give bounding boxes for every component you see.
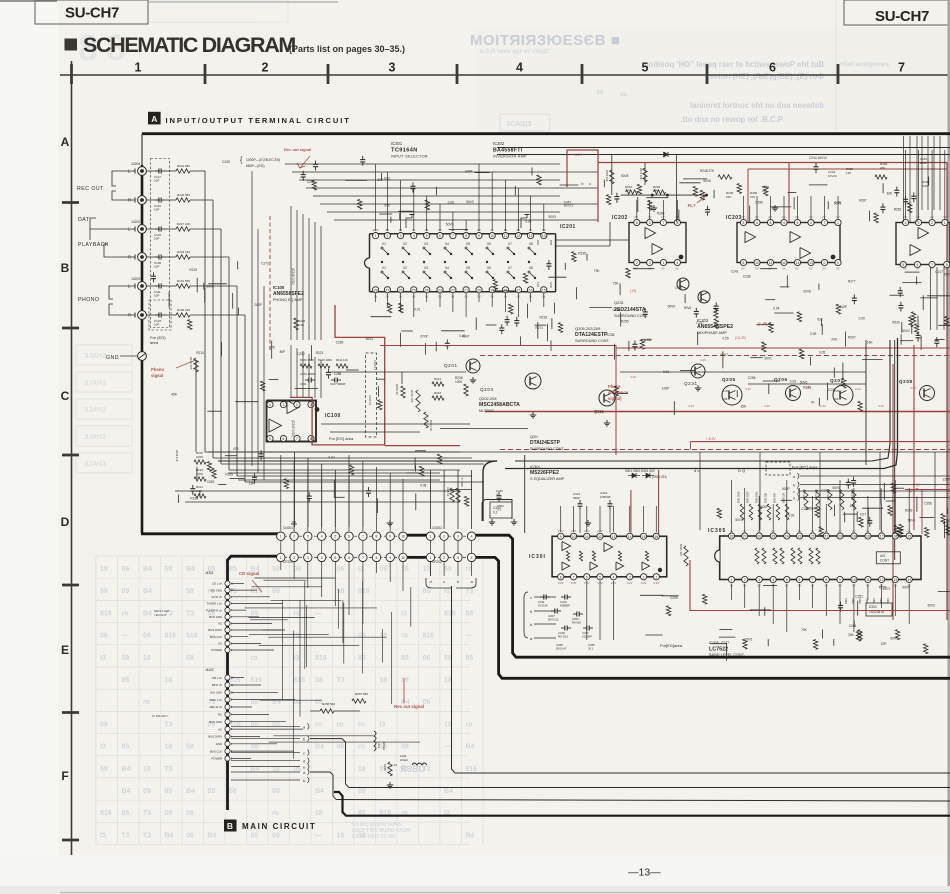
svg-text:09: 09 — [186, 810, 194, 817]
svg-text:D303: D303 — [869, 605, 877, 609]
svg-text:TUNER R ch: TUNER R ch — [206, 608, 223, 612]
svg-text:T3: T3 — [143, 832, 151, 839]
svg-text:11: 11 — [504, 234, 508, 238]
svg-text:0.05: 0.05 — [722, 337, 728, 341]
svg-text:13: 13 — [529, 234, 533, 238]
svg-text:3: 3 — [400, 234, 402, 238]
svg-text:7: 7 — [362, 556, 364, 560]
svg-text:21: 21 — [824, 535, 828, 539]
svg-text:100μH: 100μH — [400, 758, 408, 762]
svg-text:AC: AC — [218, 622, 222, 626]
svg-text:09: 09 — [251, 699, 259, 706]
section label A INPUT/OUTPUT TERMINAL CIRCUIT — [148, 112, 161, 125]
svg-text:R247: R247 — [462, 335, 470, 339]
svg-text:—: — — [466, 633, 473, 640]
svg-text:18: 18 — [444, 677, 452, 684]
bus wire to main amp 2 — [346, 784, 950, 788]
svg-text:16: 16 — [654, 535, 658, 539]
svg-text:3: 3 — [457, 535, 459, 539]
svg-text:620P: 620P — [782, 487, 789, 491]
svg-text:8: 8 — [376, 535, 378, 539]
svg-text:09: 09 — [122, 588, 130, 595]
svg-text:J4302: J4302 — [205, 668, 214, 672]
I/O block bottom border right segment to corner — [475, 535, 950, 657]
svg-text:50V6: 50V6 — [800, 381, 808, 385]
svg-text:0V: 0V — [836, 267, 839, 271]
svg-text:11: 11 — [782, 261, 786, 265]
svg-text:X1: X1 — [382, 242, 386, 246]
svg-text:R365 235K: R365 235K — [757, 491, 759, 503]
svg-text:2.2K: 2.2K — [298, 323, 304, 327]
svg-text:63K: 63K — [817, 318, 824, 322]
IC201 pins bottom — [373, 287, 379, 293]
svg-text:b: b — [457, 580, 459, 584]
clutter left column B-C — [168, 292, 170, 308]
svg-text:LC7522: LC7522 — [709, 647, 728, 653]
svg-text:c: c — [530, 596, 532, 600]
svg-text:0V: 0V — [755, 267, 758, 271]
svg-text:C120 0.1: C120 0.1 — [368, 395, 372, 406]
svg-text:Q201: Q201 — [444, 363, 458, 368]
svg-text:15: 15 — [642, 535, 646, 539]
bus wire to main amp 3 — [336, 800, 950, 802]
svg-text:BUS GND: BUS GND — [209, 720, 222, 724]
IC301 pins bottom — [558, 574, 564, 580]
R251 R253 resistors — [626, 190, 638, 194]
svg-text:SCHEMATIC DIAGRAM: SCHEMATIC DIAGRAM — [83, 33, 295, 57]
clutter around IC100 upper — [328, 369, 330, 373]
svg-text:(CL-R): (CL-R) — [735, 336, 746, 340]
secondary bundle into IC100 — [290, 206, 292, 340]
svg-text:C288: C288 — [334, 372, 342, 376]
svg-text:58: 58 — [186, 588, 194, 595]
vertical drops above IC202 — [611, 155, 613, 195]
R225 2.2K — [294, 318, 298, 330]
svg-text:R267: R267 — [859, 199, 867, 203]
svg-text:C271: C271 — [883, 587, 891, 591]
wire Q201 join — [330, 371, 466, 373]
svg-text:X7: X7 — [508, 242, 512, 246]
svg-text:4: 4 — [772, 578, 774, 582]
svg-text:09: 09 — [143, 633, 151, 640]
svg-text:816: 816 — [423, 633, 435, 640]
svg-text:A: A — [61, 135, 70, 149]
resistor R221 560 — [165, 170, 176, 172]
svg-text:13: 13 — [809, 261, 813, 265]
svg-text:SURROUND CONT.: SURROUND CONT. — [530, 447, 564, 451]
resistor network above IC100 — [300, 364, 312, 368]
wires between IC201 and IC202 — [556, 239, 629, 241]
svg-text:20K: 20K — [831, 338, 838, 342]
svg-text:6: 6 — [916, 263, 918, 267]
svg-text:12K: 12K — [846, 171, 851, 175]
svg-text:b: b — [303, 738, 305, 742]
svg-text:2: 2 — [931, 221, 933, 225]
svg-text:6: 6 — [769, 61, 776, 75]
svg-text:For [EG] area: For [EG] area — [329, 436, 354, 441]
clutter below IC305 — [938, 590, 950, 592]
svg-text:11: 11 — [866, 578, 870, 582]
svg-text:27: 27 — [386, 288, 390, 292]
svg-text:B4: B4 — [315, 744, 324, 751]
svg-text:50V1: 50V1 — [764, 357, 772, 361]
svg-text:X2: X2 — [403, 266, 407, 270]
red wire EG extension — [385, 445, 460, 447]
svg-text:d: d — [793, 497, 795, 501]
svg-text:ЯЗВU: ЯЗВU — [400, 764, 425, 774]
R279 10K vertical — [643, 168, 647, 182]
red dashed feed line — [269, 216, 271, 350]
svg-text:25: 25 — [771, 535, 775, 539]
svg-text:A/S: A/S — [880, 554, 885, 558]
svg-text:SURROUND CONT.: SURROUND CONT. — [575, 339, 609, 343]
svg-text:R218 12K: R218 12K — [177, 250, 190, 254]
svg-text:d: d — [530, 623, 532, 627]
IC201 switch symbols row2 — [382, 272, 388, 278]
svg-text:5: 5 — [599, 575, 601, 579]
svg-text:+6.2V: +6.2V — [573, 153, 583, 157]
svg-text:FL?: FL? — [688, 203, 696, 208]
svg-text:SIG GND: SIG GND — [210, 588, 222, 592]
svg-text:R291 470: R291 470 — [679, 544, 683, 557]
svg-text:17: 17 — [880, 535, 884, 539]
svg-text:R269: R269 — [905, 509, 913, 513]
svg-text:J4202: J4202 — [131, 220, 140, 224]
svg-text:BUS DATA: BUS DATA — [208, 628, 222, 632]
svg-text:50V5: 50V5 — [833, 486, 841, 490]
IC305 internals — [755, 548, 759, 564]
svg-text:R260 12K: R260 12K — [605, 170, 609, 182]
resistor R101 550 — [165, 285, 176, 287]
capacitor C117 — [155, 170, 159, 172]
svg-text:R362: R362 — [858, 598, 861, 604]
wires IC301 below verticals — [586, 581, 588, 640]
svg-text:4.4V: 4.4V — [805, 386, 811, 390]
svg-text:09: 09 — [143, 788, 151, 795]
svg-text:4.4V: 4.4V — [745, 387, 751, 391]
IC203 pins top — [740, 219, 746, 225]
svg-text:B4: B4 — [143, 566, 152, 573]
wires below IC305 — [731, 584, 733, 600]
svg-text:INPUT SELECTOR: INPUT SELECTOR — [391, 155, 428, 159]
svg-text:58: 58 — [100, 766, 108, 773]
svg-text:R101 550: R101 550 — [177, 279, 190, 283]
R209 vertical — [401, 386, 405, 398]
IC202 package — [629, 223, 686, 263]
svg-text:7: 7 — [812, 578, 814, 582]
svg-text:POWER: POWER — [211, 648, 222, 652]
clutter right mid — [911, 312, 915, 322]
ground below C317 — [587, 520, 589, 523]
svg-text:30P: 30P — [377, 178, 383, 182]
svg-text:—: — — [315, 610, 322, 617]
svg-text:R360: R360 — [844, 598, 847, 604]
svg-text:C244 16V10: C244 16V10 — [809, 156, 827, 160]
svg-text:C220: C220 — [222, 160, 230, 164]
svg-text:0.03: 0.03 — [788, 514, 794, 518]
svg-text:b: b — [793, 484, 795, 488]
gnd jack — [138, 352, 147, 361]
svg-text:1: 1 — [837, 221, 839, 225]
R260 12K vertical — [610, 170, 614, 184]
svg-text:45K: 45K — [171, 392, 178, 396]
svg-text:0V: 0V — [809, 267, 812, 271]
svg-text:0.09: 0.09 — [859, 317, 865, 321]
red rail 6.2V mid — [691, 441, 950, 443]
svg-text:20: 20 — [477, 288, 481, 292]
svg-text:3: 3 — [389, 61, 396, 75]
svg-text:10: 10 — [490, 234, 494, 238]
svg-text:0.06: 0.06 — [525, 220, 531, 224]
svg-text:50V4: 50V4 — [366, 337, 374, 341]
long vertical to IC301 — [524, 455, 526, 533]
svg-text:I3: I3 — [444, 588, 450, 595]
svg-text:T3: T3 — [186, 610, 194, 617]
clutter below IC100 — [334, 496, 345, 498]
svg-text:6: 6 — [586, 575, 588, 579]
svg-text:7: 7 — [362, 535, 364, 539]
svg-text:18: 18 — [504, 288, 508, 292]
svg-text:C330: C330 — [493, 506, 501, 510]
svg-text:2: 2 — [293, 556, 295, 560]
svg-text:100K: 100K — [455, 380, 463, 384]
svg-text:816: 816 — [251, 677, 263, 684]
svg-text:R355 220K: R355 220K — [802, 489, 804, 501]
svg-text:85: 85 — [423, 588, 431, 595]
svg-text:ro: ro — [294, 610, 301, 617]
svg-text:4.4V: 4.4V — [855, 387, 861, 391]
svg-text:12: 12 — [517, 234, 521, 238]
svg-text:C232: C232 — [297, 352, 305, 356]
svg-text:6: 6 — [636, 221, 638, 225]
svg-text:R230: R230 — [383, 764, 387, 771]
svg-text:R223: R223 — [316, 351, 324, 355]
svg-text:BA4558FTI: BA4558FTI — [493, 148, 523, 154]
svg-text:09: 09 — [401, 677, 409, 684]
red rail 4.4V — [485, 411, 950, 413]
svg-text:7: 7 — [452, 234, 454, 238]
svg-text:13: 13 — [612, 535, 616, 539]
red dashed rail — [500, 449, 950, 451]
stair bus drops to CN202 — [430, 470, 432, 529]
clutter below IC202 IC203 — [619, 283, 621, 295]
abcd bracket below CN202 — [430, 562, 432, 576]
svg-text:R326 1K: R326 1K — [461, 477, 464, 487]
svg-text:d: d — [303, 760, 305, 764]
svg-text:INPUT/OUTPUT TERMINAL CIRCUIT: INPUT/OUTPUT TERMINAL CIRCUIT — [166, 116, 351, 125]
svg-text:4.4V: 4.4V — [688, 404, 694, 408]
svg-text:816: 816 — [315, 655, 327, 662]
svg-text:18: 18 — [143, 766, 151, 773]
svg-text:55K: 55K — [384, 203, 391, 207]
svg-text:100K: 100K — [196, 455, 203, 459]
svg-text:R217 10K: R217 10K — [177, 222, 190, 226]
svg-text:27K: 27K — [269, 345, 276, 349]
svg-text:34: 34 — [596, 89, 604, 96]
svg-text:AN6558SFE2: AN6558SFE2 — [273, 291, 304, 297]
svg-text:R271: R271 — [535, 326, 543, 330]
svg-text:R248 27K: R248 27K — [700, 169, 715, 173]
svg-text:4: 4 — [905, 221, 907, 225]
svg-text:B4: B4 — [186, 788, 195, 795]
right DIP package — [896, 223, 950, 265]
svg-text:R365: R365 — [879, 598, 882, 604]
svg-text:D Q: D Q — [738, 468, 745, 473]
svg-text:85: 85 — [165, 788, 173, 795]
svg-text:58: 58 — [444, 655, 452, 662]
mid bus lines — [208, 451, 950, 453]
svg-text:85: 85 — [358, 655, 366, 662]
svg-text:C238: C238 — [743, 274, 751, 278]
svg-text:I3: I3 — [401, 610, 407, 617]
wire mesh above IC201 — [285, 163, 560, 165]
svg-text:X3: X3 — [424, 266, 428, 270]
svg-text:100P: 100P — [662, 387, 669, 391]
header box SU-CH7 left — [35, 0, 148, 24]
svg-text:1000P—(E,EB,EC,ES): 1000P—(E,EB,EC,ES) — [246, 158, 280, 162]
svg-text:X1: X1 — [382, 266, 386, 270]
svg-text:16: 16 — [529, 288, 533, 292]
svg-text:10P: 10P — [154, 264, 159, 268]
svg-text:IC305: IC305 — [709, 641, 719, 645]
svg-text:0V: 0V — [675, 267, 678, 271]
svg-text:50V8: 50V8 — [207, 285, 215, 289]
svg-text:B4: B4 — [165, 832, 174, 839]
svg-text:CLK: CLK — [536, 282, 540, 287]
svg-text:10: 10 — [401, 556, 405, 560]
svg-text:39K: 39K — [653, 189, 658, 193]
svg-text:9: 9 — [389, 556, 391, 560]
svg-text:lanimret lortnoc eht no dna: lanimret lortnoc eht no dna neewteb — [690, 101, 824, 110]
svg-text:MIX/PHASE AMP: MIX/PHASE AMP — [697, 331, 727, 335]
svg-text:C264: C264 — [849, 624, 857, 628]
Q208 transistor — [920, 386, 935, 401]
svg-text:в.З.Я тиев едт ит хзедС: в.З.Я тиев едт ит хзедС — [480, 49, 550, 55]
svg-text:ro: ro — [315, 721, 322, 728]
Q206 transistor — [786, 386, 801, 401]
svg-text:7: 7 — [931, 263, 933, 267]
svg-text:C299: C299 — [670, 596, 678, 600]
red path bottom IC305 — [690, 560, 950, 611]
svg-text:4.4V: 4.4V — [910, 386, 916, 390]
top page edge line — [0, 0, 57, 2]
svg-text:MUTING: MUTING — [479, 409, 494, 413]
svg-text:AC: AC — [218, 727, 222, 731]
R214 vertical — [424, 412, 428, 428]
svg-text:58: 58 — [100, 588, 108, 595]
svg-text:R109 100K: R109 100K — [318, 358, 332, 362]
svg-text:22: 22 — [451, 288, 455, 292]
svg-text:5V: 5V — [916, 483, 921, 487]
svg-text:For[EG]area.: For[EG]area. — [660, 643, 683, 648]
svg-text:e: e — [303, 766, 305, 770]
svg-text:PHONO: PHONO — [78, 297, 100, 303]
red rail top mid — [616, 347, 950, 349]
svg-text:2: 2 — [810, 221, 812, 225]
bus wire to main amp 1 — [452, 586, 950, 773]
svg-text:R111 12K: R111 12K — [336, 358, 348, 362]
svg-text:0V: 0V — [916, 267, 919, 271]
svg-text:0.2V: 0.2V — [627, 581, 633, 585]
svg-text:T3: T3 — [143, 810, 151, 817]
svg-text:62K: 62K — [887, 191, 894, 195]
svg-text:signal: signal — [151, 373, 163, 378]
svg-text:50V2: 50V2 — [902, 329, 910, 333]
svg-text:18: 18 — [444, 721, 452, 728]
svg-text:R366: R366 — [886, 598, 889, 604]
svg-text:C272: C272 — [261, 261, 269, 265]
svg-text:SU-CH7: SU-CH7 — [875, 8, 929, 25]
svg-text:CN201: CN201 — [283, 526, 293, 530]
red feed box — [567, 150, 598, 222]
svg-text:06: 06 — [186, 832, 194, 839]
svg-text:C: C — [61, 389, 70, 403]
svg-text:I3: I3 — [100, 655, 106, 662]
svg-text:47K: 47K — [233, 447, 240, 451]
svg-text:23: 23 — [798, 535, 802, 539]
R291 470 — [684, 546, 688, 566]
svg-text:IC202: IC202 — [493, 141, 505, 146]
IC305 pins bottom — [729, 576, 735, 582]
svg-text:73K: 73K — [613, 282, 620, 286]
svg-text:B4: B4 — [122, 788, 131, 795]
svg-text:0.09: 0.09 — [663, 370, 669, 374]
svg-text:R216: R216 — [540, 316, 548, 320]
svg-text:8: 8 — [825, 578, 827, 582]
svg-text:50V6: 50V6 — [684, 306, 692, 310]
svg-text:9: 9 — [839, 578, 841, 582]
svg-text:13: 13 — [893, 578, 897, 582]
svg-text:10P: 10P — [154, 293, 159, 297]
svg-text:R105 180K: R105 180K — [300, 358, 314, 362]
svg-text:5: 5 — [334, 556, 336, 560]
IC202 pins bottom — [634, 259, 640, 265]
svg-text:ro: ro — [272, 810, 279, 817]
svg-text:816: 816 — [251, 588, 263, 595]
svg-text:B: B — [61, 261, 70, 275]
svg-text:0.09: 0.09 — [810, 332, 816, 336]
wires CP201 drops — [280, 562, 282, 570]
svg-text:R363: R363 — [865, 598, 868, 604]
svg-text:J0.1: J0.1 — [588, 647, 594, 651]
svg-text:ЗЈАЧЗ: ЗЈАЧЗ — [84, 434, 107, 441]
svg-text:0.2V: 0.2V — [558, 581, 564, 585]
svg-text:18: 18 — [165, 677, 173, 684]
clutter below IC201 — [401, 330, 413, 332]
svg-text:F: F — [61, 769, 68, 783]
svg-text:2SD2144STA: 2SD2144STA — [614, 307, 646, 313]
svg-text:27K: 27K — [762, 189, 767, 193]
svg-text:R102 220: R102 220 — [177, 308, 190, 312]
svg-text:B4: B4 — [122, 766, 131, 773]
svg-text:(-R): (-R) — [630, 289, 636, 293]
right DIP pins top — [903, 219, 909, 225]
svg-text:R277: R277 — [721, 641, 729, 645]
Q207 transistor — [833, 385, 853, 405]
svg-text:For [EG] area.: For [EG] area. — [792, 465, 819, 470]
svg-text:ЗЈАЧЗ: ЗЈАЧЗ — [84, 461, 107, 468]
svg-text:58: 58 — [165, 566, 173, 573]
svg-text:1: 1 — [662, 261, 664, 265]
svg-text:B4: B4 — [143, 610, 152, 617]
svg-text:M5226FPE2: M5226FPE2 — [530, 470, 559, 476]
svg-text:X4: X4 — [445, 242, 449, 246]
resistor R218 12K — [165, 256, 176, 258]
svg-text:1: 1 — [430, 535, 432, 539]
capacitor C119 — [155, 228, 159, 230]
svg-text:0V: 0V — [782, 267, 785, 271]
svg-text:Tu NO-CH7 (: Tu NO-CH7 ( — [152, 714, 168, 718]
